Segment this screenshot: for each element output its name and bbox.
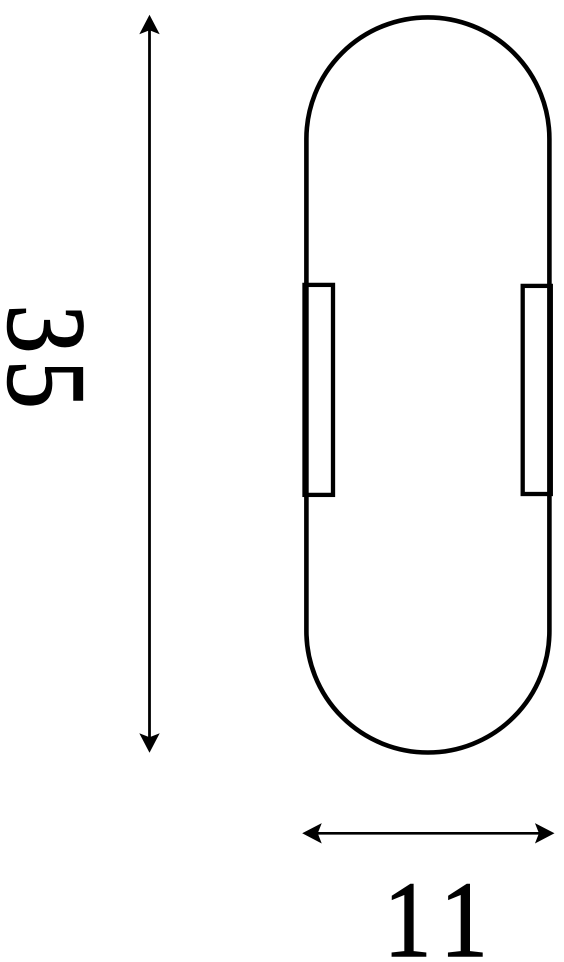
svg-text:1: 1 [384,860,432,962]
height dimension arrowhead top [139,15,159,35]
capsule lamp body outline [306,17,549,752]
right mounting bracket [523,286,551,494]
left mounting bracket [305,285,334,495]
width dimension arrowhead right [535,823,555,843]
height dimension line (35) [148,30,151,738]
width dimension arrowhead left [302,823,322,843]
svg-text:3: 3 [0,305,109,354]
width dimension line (11) [316,832,540,835]
svg-text:5: 5 [0,360,109,409]
svg-text:1: 1 [440,860,488,962]
height dimension arrowhead bottom [139,733,159,753]
